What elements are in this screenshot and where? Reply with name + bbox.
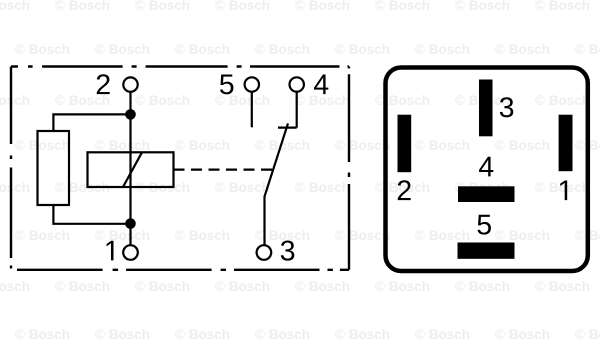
svg-text:© Bosch: © Bosch (175, 42, 230, 57)
svg-text:© Bosch: © Bosch (175, 327, 230, 340)
svg-text:© Bosch: © Bosch (15, 42, 70, 57)
svg-text:© Bosch: © Bosch (415, 42, 470, 57)
svg-text:© Bosch: © Bosch (55, 0, 110, 13)
svg-text:© Bosch: © Bosch (335, 42, 390, 57)
svg-text:© Bosch: © Bosch (375, 0, 430, 13)
svg-text:© Bosch: © Bosch (335, 228, 390, 243)
svg-text:© Bosch: © Bosch (535, 279, 590, 294)
svg-text:© Bosch: © Bosch (0, 279, 30, 294)
svg-text:© Bosch: © Bosch (55, 279, 110, 294)
svg-text:© Bosch: © Bosch (135, 93, 190, 108)
svg-text:© Bosch: © Bosch (215, 180, 270, 195)
svg-text:© Bosch: © Bosch (255, 327, 310, 340)
svg-text:© Bosch: © Bosch (495, 138, 550, 153)
svg-text:© Bosch: © Bosch (255, 228, 310, 243)
svg-text:© Bosch: © Bosch (215, 93, 270, 108)
svg-text:© Bosch: © Bosch (335, 138, 390, 153)
svg-text:© Bosch: © Bosch (375, 279, 430, 294)
svg-text:© Bosch: © Bosch (0, 93, 30, 108)
svg-text:© Bosch: © Bosch (15, 228, 70, 243)
svg-text:© Bosch: © Bosch (95, 42, 150, 57)
svg-text:© Bosch: © Bosch (295, 180, 350, 195)
svg-text:© Bosch: © Bosch (455, 0, 510, 13)
svg-text:© Bosch: © Bosch (95, 327, 150, 340)
svg-text:© Bosch: © Bosch (495, 42, 550, 57)
svg-text:© Bosch: © Bosch (175, 228, 230, 243)
svg-text:© Bosch: © Bosch (535, 93, 590, 108)
svg-text:© Bosch: © Bosch (455, 279, 510, 294)
svg-text:© Bosch: © Bosch (215, 0, 270, 13)
svg-text:© Bosch: © Bosch (135, 279, 190, 294)
svg-text:© Bosch: © Bosch (495, 327, 550, 340)
svg-text:© Bosch: © Bosch (415, 138, 470, 153)
svg-text:© Bosch: © Bosch (215, 279, 270, 294)
svg-text:© Bosch: © Bosch (0, 0, 30, 13)
svg-text:© Bosch: © Bosch (55, 93, 110, 108)
svg-text:© Bosch: © Bosch (295, 279, 350, 294)
svg-text:© Bosch: © Bosch (335, 327, 390, 340)
svg-text:© Bosch: © Bosch (95, 138, 150, 153)
svg-text:© Bosch: © Bosch (415, 228, 470, 243)
svg-text:© Bosch: © Bosch (295, 93, 350, 108)
svg-text:© Bosch: © Bosch (0, 180, 30, 195)
svg-text:© Bosch: © Bosch (135, 0, 190, 13)
svg-text:© Bosch: © Bosch (375, 93, 430, 108)
svg-text:© Bosch: © Bosch (15, 327, 70, 340)
svg-text:© Bosch: © Bosch (535, 0, 590, 13)
svg-text:© Bosch: © Bosch (255, 42, 310, 57)
svg-text:© Bosch: © Bosch (95, 228, 150, 243)
svg-text:© Bosch: © Bosch (295, 0, 350, 13)
svg-text:© Bosch: © Bosch (495, 228, 550, 243)
svg-text:© Bosch: © Bosch (175, 138, 230, 153)
svg-text:© Bosch: © Bosch (415, 327, 470, 340)
svg-text:© Bosch: © Bosch (575, 327, 600, 340)
svg-text:© Bosch: © Bosch (15, 138, 70, 153)
svg-text:© Bosch: © Bosch (575, 42, 600, 57)
